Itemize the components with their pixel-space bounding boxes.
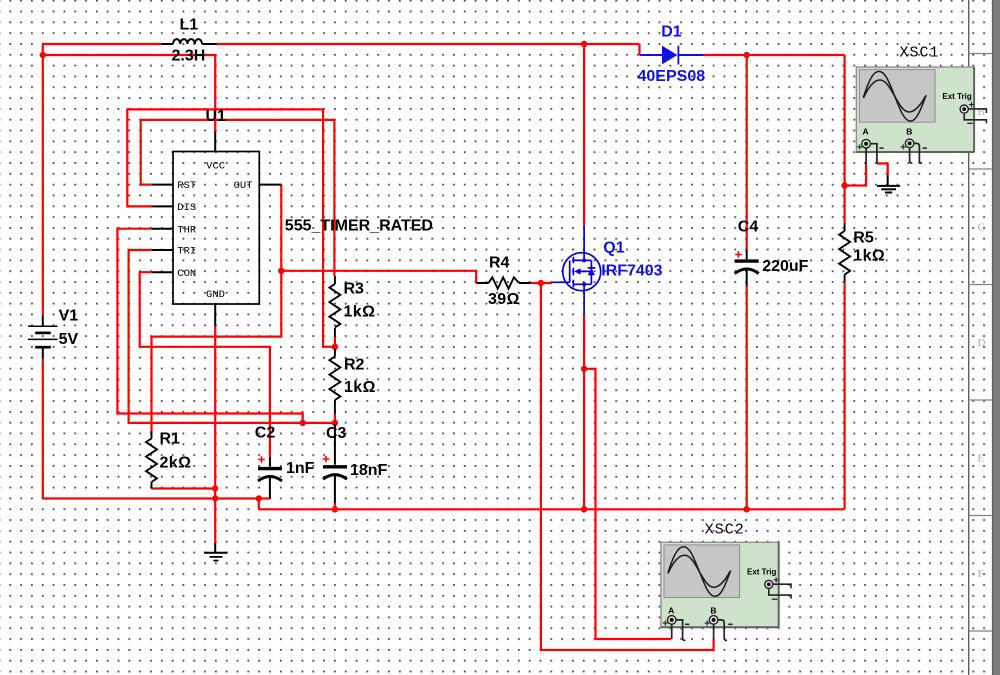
resistor R2 — [329, 349, 340, 414]
wire top rail — [43, 44, 640, 55]
svg-text:XSC1: XSC1 — [900, 45, 940, 62]
wire source to XSC2 A — [584, 369, 671, 639]
resistor R1 — [146, 431, 157, 489]
node source jog — [581, 366, 587, 372]
node diode/C4 — [744, 52, 750, 58]
svg-text:IRF7403: IRF7403 — [601, 263, 662, 280]
wire gate to XSC2 B — [541, 283, 714, 650]
node gate/R4 — [538, 280, 544, 286]
wire XSC1 A probe — [845, 165, 867, 186]
node drain/top rail — [581, 41, 587, 47]
wire source column — [583, 315, 585, 509]
wire R3 bottom to node — [334, 337, 336, 347]
wire C4 column — [746, 55, 748, 509]
battery V1 — [28, 315, 58, 358]
wire bottom rail right — [259, 508, 845, 510]
svg-text:C3: C3 — [326, 425, 347, 442]
svg-text:555_TIMER_RATED: 555_TIMER_RATED — [285, 218, 433, 235]
wire VCC feed — [43, 55, 215, 131]
svg-text:A: A — [668, 605, 674, 615]
wire CON net to C2 — [140, 272, 270, 457]
wire R2 stubs — [334, 347, 336, 423]
label 555_TIMER_RATED — [285, 218, 433, 235]
wire diode output to R5 column — [704, 54, 845, 56]
svg-text:1nF: 1nF — [286, 460, 315, 477]
wire C3 bottom stub — [334, 503, 336, 509]
node C3/rail — [332, 506, 338, 512]
svg-text:V1: V1 — [59, 308, 79, 325]
svg-text:F: F — [978, 568, 984, 580]
svg-text:5V: 5V — [59, 331, 79, 348]
svg-text:TRI: TRI — [177, 246, 196, 258]
node OUT branch — [278, 268, 284, 274]
label U1 — [206, 108, 227, 125]
transistor Q1 mosfet — [552, 225, 601, 315]
wire TRI net — [129, 250, 335, 423]
svg-text:R3: R3 — [344, 281, 365, 298]
capacitor C2 — [258, 456, 282, 498]
node R2/C3 — [332, 420, 338, 426]
svg-text:D1: D1 — [661, 24, 682, 41]
svg-text:CON: CON — [177, 268, 196, 280]
svg-text:Ext Trig: Ext Trig — [942, 92, 971, 101]
svg-text:39Ω: 39Ω — [488, 291, 520, 308]
wire DIS net — [127, 109, 335, 346]
node GND pin/rail — [212, 495, 218, 501]
wire THR net — [117, 229, 302, 423]
svg-text:E: E — [978, 453, 985, 465]
svg-text:220uF: 220uF — [762, 258, 808, 275]
wire drain column — [583, 44, 585, 225]
diode D1 — [640, 46, 704, 65]
node R3/R2/CON — [332, 344, 338, 350]
svg-text:Q1: Q1 — [603, 240, 624, 257]
oscilloscope XSC1 — [856, 45, 986, 165]
IC U1 555 timer — [152, 131, 281, 326]
node rail jog/C2 — [256, 495, 262, 501]
svg-text:40EPS08: 40EPS08 — [638, 68, 706, 85]
node R5/XSC1 A — [841, 182, 847, 188]
svg-text:VCC: VCC — [206, 161, 225, 173]
wire bottom rail left — [43, 499, 259, 510]
wire V1 positive lead column — [42, 44, 44, 315]
svg-text:B: B — [978, 106, 985, 118]
svg-text:XSC2: XSC2 — [705, 522, 745, 539]
svg-text:OUT: OUT — [234, 180, 253, 192]
wire XSC1 ground link — [877, 164, 888, 176]
svg-text:Ext Trig: Ext Trig — [747, 567, 776, 576]
scrollbar — [992, 0, 1000, 675]
node C4/rail — [744, 506, 750, 512]
capacitor C3 — [323, 424, 347, 503]
svg-text:1kΩ: 1kΩ — [853, 248, 885, 265]
inductor L1 — [162, 39, 217, 44]
svg-text:GND: GND — [206, 289, 225, 301]
svg-text:R2: R2 — [344, 357, 365, 374]
svg-text:B: B — [710, 605, 716, 615]
node R1/GND pin — [212, 485, 218, 491]
oscilloscope XSC2 — [661, 522, 791, 641]
wire 555 GND pin column — [214, 326, 216, 543]
wire V1 negative to bottom rail — [42, 359, 44, 499]
resistor R4 — [476, 277, 530, 288]
svg-text:C: C — [978, 222, 985, 234]
svg-text:18nF: 18nF — [350, 462, 388, 479]
svg-text:1kΩ: 1kΩ — [344, 379, 376, 396]
ground main — [204, 543, 228, 561]
svg-text:D: D — [978, 337, 986, 349]
svg-text:1kΩ: 1kΩ — [344, 304, 376, 321]
svg-text:C4: C4 — [738, 219, 759, 236]
svg-text:R1: R1 — [160, 431, 181, 448]
node source/rail — [581, 506, 587, 512]
wire C2 bottom stub — [259, 497, 270, 499]
svg-text:THR: THR — [177, 224, 197, 236]
svg-text:DIS: DIS — [177, 202, 196, 214]
node THR/TRI join — [300, 420, 306, 426]
node V1/L1/VCC — [40, 52, 46, 58]
ground XSC1 — [877, 175, 900, 193]
svg-text:U1: U1 — [206, 108, 227, 125]
svg-text:2.3H: 2.3H — [172, 48, 206, 65]
svg-text:R5: R5 — [853, 230, 874, 247]
svg-text:B: B — [906, 127, 912, 137]
svg-text:R4: R4 — [489, 255, 510, 272]
resistor R5 — [839, 223, 850, 282]
svg-text:2kΩ: 2kΩ — [160, 455, 192, 472]
svg-text:RST: RST — [177, 180, 196, 192]
wire R5 column — [843, 55, 845, 509]
resistor R3 — [329, 276, 340, 337]
svg-text:L1: L1 — [180, 17, 199, 34]
wire RST net — [141, 120, 335, 276]
capacitor C4 — [735, 250, 759, 286]
wire OUT net to R4 — [281, 185, 552, 283]
wire R1 bottom to gnd pin — [152, 487, 216, 489]
svg-text:A: A — [863, 127, 869, 137]
wire OUT branch to R1 — [152, 271, 282, 431]
svg-text:C2: C2 — [255, 425, 276, 442]
